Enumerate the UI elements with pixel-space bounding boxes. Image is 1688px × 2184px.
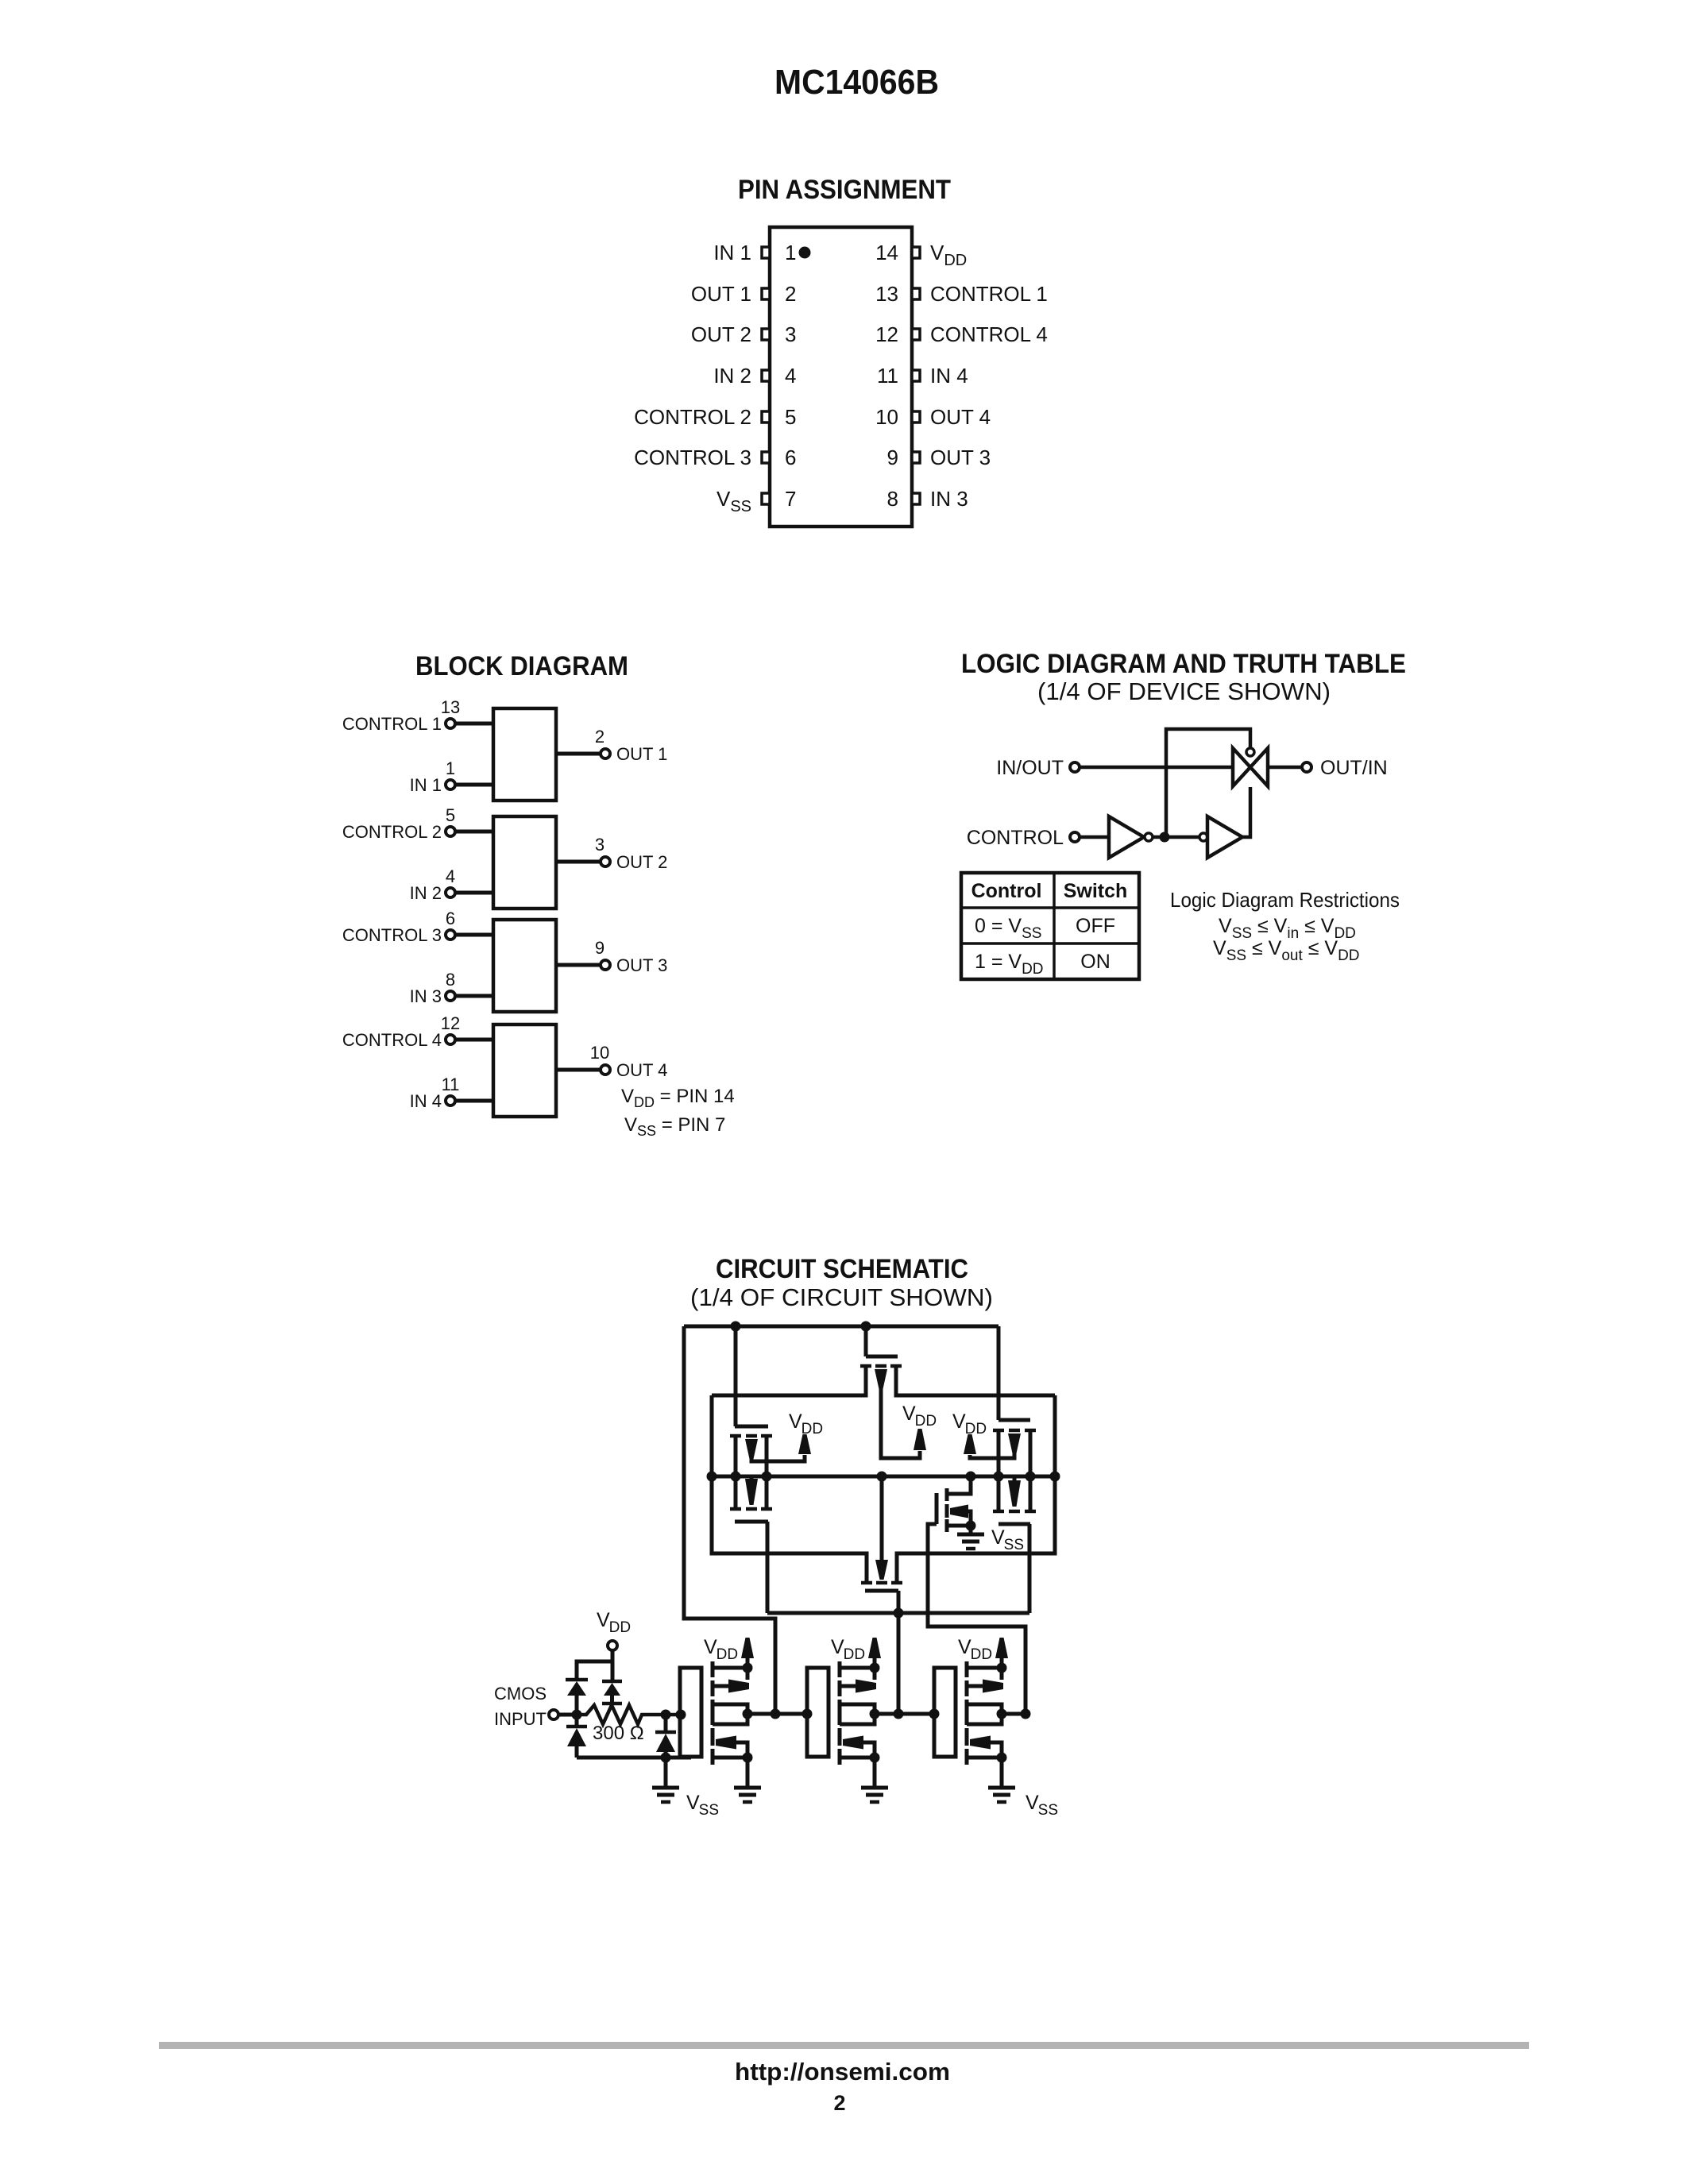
- svg-text:DD: DD: [965, 1421, 987, 1437]
- transistor Q5 source lead: [997, 1432, 1001, 1476]
- VDD arrow at inverter 3: [995, 1638, 1008, 1658]
- diode D2 anode bar at resistor tap: [602, 1702, 622, 1706]
- junction left rail at inverter1 output: [771, 1709, 781, 1719]
- svg-text:OUT 2: OUT 2: [691, 322, 751, 346]
- junction Q8 source / VDD: [743, 1663, 753, 1673]
- svg-text:6: 6: [785, 446, 796, 469]
- transistor Q4 gate plate: [865, 1589, 898, 1593]
- svg-text:ON: ON: [1080, 951, 1111, 973]
- svg-text:11: 11: [442, 1075, 460, 1094]
- transistor Q2 gate lead to gate bus: [766, 1522, 770, 1613]
- junction inverter 1 output: [743, 1709, 753, 1719]
- wire CONTROL 3 to SW3: [455, 933, 493, 937]
- transistor Q11 source lead: [840, 1756, 875, 1760]
- wire CONTROL 4 to SW4: [455, 1038, 493, 1042]
- svg-text:DD: DD: [717, 1646, 738, 1663]
- VDD arrow at Q3: [914, 1429, 926, 1450]
- OUT 1 terminal (pin 2): [601, 749, 610, 758]
- junction Q12 source / VDD: [997, 1663, 1007, 1673]
- wire SW4 to OUT 4: [556, 1068, 601, 1072]
- terminal IN/OUT: [1070, 762, 1080, 772]
- diode D2: [604, 1683, 620, 1696]
- transistor Q3 left lead to left frame: [712, 1368, 866, 1395]
- diode D1 cathode bar: [566, 1678, 588, 1682]
- transistor Q2 substrate arrow: [745, 1479, 758, 1505]
- transistor Q8 (PMOS inverter 1) source lead: [713, 1666, 747, 1670]
- transistor Q1 drain lead: [765, 1437, 769, 1476]
- truth table row divider: [961, 942, 1139, 945]
- svg-text:OUT 1: OUT 1: [616, 744, 667, 764]
- node control_bar junction: [1160, 832, 1170, 843]
- pin 4 tab: [762, 370, 770, 381]
- wire Q7 gate to inverter3 output: [928, 1524, 1026, 1714]
- IN 2 terminal (pin 4): [446, 888, 455, 897]
- svg-text:OUT 3: OUT 3: [616, 955, 667, 975]
- diode D1 anode lead: [575, 1696, 579, 1715]
- wire to VDD arrow inverter 2: [873, 1658, 877, 1668]
- transistor Q8 source-substrate tie: [746, 1668, 750, 1680]
- transistor Q2 substrate lead: [750, 1476, 754, 1479]
- wire VDD branch to D1: [577, 1661, 612, 1680]
- svg-text:http://onsemi.com: http://onsemi.com: [735, 2058, 950, 2086]
- svg-text:Switch: Switch: [1064, 880, 1128, 902]
- wire SW1 to OUT 1: [556, 752, 601, 756]
- transistor Q12 substrate arrow: [983, 1680, 1003, 1693]
- OUT 3 terminal (pin 9): [601, 960, 610, 970]
- svg-text:SS: SS: [1004, 1537, 1024, 1553]
- transistor Q1 source lead: [734, 1437, 738, 1476]
- pin 10 tab: [912, 411, 920, 423]
- transistor Q13 source lead: [967, 1756, 1002, 1760]
- svg-text:3: 3: [785, 322, 796, 346]
- wire switch n-gate bus: [767, 1611, 1029, 1615]
- diode D4 anode lead: [664, 1752, 668, 1758]
- transistor Q11 substrate lead: [863, 1742, 875, 1758]
- transistor Q1 substrate arrow: [745, 1439, 758, 1459]
- inverter 1 gate electrode: [680, 1668, 701, 1757]
- svg-text:SS: SS: [1038, 1802, 1058, 1819]
- wire IN/OUT to transmission gate: [1080, 766, 1233, 770]
- transistor Q1 channel caps: [730, 1434, 741, 1438]
- svg-text:5: 5: [446, 805, 455, 825]
- wire riser n-gate bus to inverter2 output: [897, 1613, 901, 1714]
- svg-text:CONTROL: CONTROL: [967, 827, 1064, 849]
- transistor Q11 (NMOS inverter 2) drain lead: [840, 1714, 875, 1724]
- wire clamp bottom rail: [577, 1756, 691, 1760]
- inverter 2 channel: [838, 1661, 842, 1677]
- svg-text:OUT 3: OUT 3: [930, 446, 991, 469]
- inversion bubble on TG1 p-gate: [1246, 748, 1254, 756]
- svg-text:1: 1: [446, 758, 455, 778]
- transistor Q10 source-substrate tie: [873, 1668, 877, 1680]
- transistor Q5 drain lead: [1029, 1432, 1033, 1476]
- inversion bubble U2b input: [1199, 833, 1207, 841]
- transistor Q4 substrate arrow: [875, 1560, 888, 1580]
- pin 9 tab: [912, 452, 920, 463]
- transistor Q7 substrate arrow: [950, 1505, 968, 1518]
- svg-text:CONTROL 3: CONTROL 3: [634, 446, 751, 469]
- wire control loop top: [1166, 729, 1250, 835]
- inverter 1 channel: [711, 1661, 715, 1677]
- CONTROL 2 terminal (pin 5): [446, 827, 455, 836]
- transistor Q4 channel caps: [861, 1581, 872, 1585]
- diode D3 lead from input node: [575, 1715, 579, 1727]
- transistor Q13 substrate arrow: [970, 1736, 991, 1750]
- wire inverter2 output to inverter3 input: [875, 1712, 934, 1716]
- svg-text:3: 3: [595, 835, 605, 855]
- transistor Q5 substrate arrow: [1008, 1433, 1021, 1453]
- wire to VDD arrow inverter 1: [746, 1658, 750, 1668]
- svg-text:2: 2: [785, 282, 796, 306]
- transistor Q10 substrate lead: [840, 1684, 856, 1688]
- svg-text:OUT/IN: OUT/IN: [1320, 757, 1388, 779]
- svg-text:CONTROL 4: CONTROL 4: [930, 322, 1048, 346]
- DIP-14 package body U1: [770, 227, 912, 527]
- inverter 3 gate electrode: [934, 1668, 956, 1757]
- OUT 2 terminal (pin 3): [601, 857, 610, 866]
- wire inverter3 output to Q7 gate riser: [1002, 1712, 1026, 1716]
- svg-text:V: V: [789, 1410, 802, 1433]
- buffer U2b: [1207, 816, 1242, 858]
- svg-text:(1/4 OF CIRCUIT SHOWN): (1/4 OF CIRCUIT SHOWN): [690, 1283, 993, 1311]
- OUT 4 terminal (pin 10): [601, 1065, 610, 1075]
- wire Q13 source to ground: [1000, 1758, 1004, 1788]
- terminal CONTROL: [1070, 832, 1080, 842]
- svg-text:CONTROL 2: CONTROL 2: [634, 405, 751, 429]
- svg-text:CONTROL 1: CONTROL 1: [930, 282, 1048, 306]
- wire Q7 source to ground: [969, 1526, 973, 1534]
- left frame wire (Q3 source to Q4 source): [712, 1395, 867, 1581]
- CONTROL 4 terminal (pin 12): [446, 1035, 455, 1044]
- transistor Q13 (NMOS inverter 3) drain lead: [967, 1714, 1002, 1724]
- transistor Q7 channel: [945, 1488, 949, 1501]
- diode D2 anode lead: [610, 1696, 614, 1702]
- wire CONTROL 2 to SW2: [455, 830, 493, 834]
- wire top rail (switch p-gate net): [684, 1325, 999, 1329]
- transistor Q7 drain lead to bus: [947, 1476, 971, 1494]
- transmission gate TG1: [1233, 748, 1268, 786]
- VDD arrow at inverter 1: [741, 1638, 754, 1658]
- svg-text:IN 2: IN 2: [713, 364, 751, 388]
- svg-text:4: 4: [446, 866, 455, 886]
- CONTROL 1 terminal (pin 13): [446, 719, 455, 728]
- IN 3 terminal (pin 8): [446, 991, 455, 1001]
- transistor Q12 source-substrate tie: [1000, 1668, 1004, 1680]
- junction Q11 source / ground: [870, 1753, 880, 1763]
- ground at inverter 2 (VSS): [861, 1786, 888, 1790]
- svg-text:IN 4: IN 4: [930, 364, 968, 388]
- junction n-gate bus / riser to inverter2 output: [894, 1608, 904, 1619]
- svg-text:Logic Diagram Restrictions: Logic Diagram Restrictions: [1170, 888, 1400, 912]
- junction bus / Q1 source Q2 source: [731, 1472, 741, 1482]
- transistor Q3 channel caps: [860, 1364, 871, 1368]
- wire VDD terminal down: [611, 1650, 615, 1680]
- wire U2a to node: [1153, 835, 1165, 839]
- transistor Q5 substrate lead to VDD: [970, 1453, 1014, 1458]
- transistor Q6 drain lead: [1029, 1476, 1033, 1510]
- analog switch block SW3: [493, 920, 556, 1012]
- transistor Q6 gate lead to gate bus: [1028, 1524, 1032, 1613]
- transistor Q4 (lower middle) substrate lead from bus: [880, 1476, 884, 1560]
- wire CONTROL 1 to SW1: [455, 722, 493, 726]
- truth table header divider: [961, 906, 1139, 909]
- resistor R1 300 ohm: [577, 1705, 680, 1724]
- svg-text:IN 3: IN 3: [930, 487, 968, 511]
- svg-text:V: V: [1026, 1792, 1039, 1814]
- transistor Q3 gate plate: [866, 1355, 898, 1359]
- wire CONTROL to inverter: [1080, 835, 1109, 839]
- svg-text:V: V: [991, 1526, 1005, 1549]
- svg-text:6: 6: [446, 909, 455, 928]
- wire Q9 source to ground: [746, 1758, 750, 1788]
- wire IN 1 to SW1: [455, 783, 493, 787]
- transistor Q13 substrate lead: [991, 1742, 1002, 1758]
- CONTROL 3 terminal (pin 6): [446, 930, 455, 940]
- transistor Q12 substrate lead: [967, 1684, 983, 1688]
- svg-text:2: 2: [595, 727, 605, 747]
- junction bus / Q5 source Q6 source: [994, 1472, 1004, 1482]
- transistor Q2 (lower left) source lead: [734, 1476, 738, 1507]
- transistor Q7 substrate tie: [968, 1511, 971, 1526]
- svg-text:LOGIC DIAGRAM AND TRUTH TABLE: LOGIC DIAGRAM AND TRUTH TABLE: [961, 649, 1406, 679]
- svg-text:8: 8: [887, 487, 898, 511]
- junction inverter2 input: [802, 1709, 813, 1719]
- transistor Q11 substrate arrow: [843, 1736, 863, 1750]
- svg-text:V: V: [958, 1636, 971, 1658]
- diode D3 cathode bar: [566, 1725, 587, 1729]
- svg-text:IN/OUT: IN/OUT: [996, 757, 1064, 779]
- junction top rail / Q1 gate: [731, 1322, 741, 1332]
- svg-text:OFF: OFF: [1076, 915, 1115, 937]
- junction Q9 source / ground: [743, 1753, 753, 1763]
- pin 7 tab: [762, 493, 770, 504]
- svg-text:CONTROL 1: CONTROL 1: [342, 714, 442, 734]
- transistor Q6 substrate lead: [1013, 1476, 1017, 1480]
- svg-text:PIN ASSIGNMENT: PIN ASSIGNMENT: [738, 175, 951, 205]
- transistor Q10 drain lead: [840, 1704, 875, 1714]
- transistor Q6 (lower right) source lead: [997, 1476, 1001, 1510]
- junction Q13 source / ground: [997, 1753, 1007, 1763]
- svg-text:IN 1: IN 1: [410, 775, 442, 795]
- svg-text:OUT 2: OUT 2: [616, 852, 667, 872]
- transistor Q5 gate plate: [999, 1418, 1030, 1422]
- svg-text:OUT 4: OUT 4: [930, 405, 991, 429]
- transistor Q2 drain lead: [765, 1476, 769, 1507]
- transistor Q10 (PMOS inverter 2) source lead: [840, 1666, 875, 1670]
- svg-text:SS: SS: [699, 1802, 719, 1819]
- svg-text:V: V: [686, 1792, 700, 1814]
- svg-text:V: V: [704, 1636, 717, 1658]
- diode D4: [656, 1734, 675, 1752]
- svg-text:CIRCUIT SCHEMATIC: CIRCUIT SCHEMATIC: [716, 1254, 968, 1284]
- junction top rail / Q3 gate: [861, 1322, 871, 1332]
- svg-text:V: V: [597, 1609, 610, 1631]
- svg-text:13: 13: [875, 282, 898, 306]
- svg-text:DD: DD: [844, 1646, 865, 1663]
- IN 1 terminal (pin 1): [446, 780, 455, 789]
- svg-text:11: 11: [877, 364, 898, 388]
- junction Q7 gate net at inverter3 output: [1021, 1709, 1031, 1719]
- transistor Q2 channel caps: [730, 1507, 741, 1511]
- VDD arrow at inverter 2: [868, 1638, 881, 1658]
- junction bus / Q5 drain Q6 drain: [1026, 1472, 1036, 1482]
- transistor Q6 gate plate: [999, 1522, 1030, 1526]
- svg-text:INPUT: INPUT: [494, 1709, 547, 1729]
- svg-text:CONTROL 3: CONTROL 3: [342, 925, 442, 945]
- junction Q7 source / substrate / ground: [966, 1521, 976, 1531]
- wire analog bus (switch channel net): [712, 1475, 1055, 1479]
- junction bottom rail / D4 anode: [661, 1753, 671, 1763]
- svg-text:CMOS: CMOS: [494, 1684, 547, 1704]
- transistor Q7 (substrate switch) gate bar: [935, 1493, 939, 1524]
- junction inverter3 input: [929, 1709, 940, 1719]
- inverter 2 gate electrode: [807, 1668, 829, 1757]
- junction Q10 source / VDD: [870, 1663, 880, 1673]
- junction riser at inverter2 output: [894, 1709, 904, 1719]
- transistor Q4 gate lead to gate bus: [897, 1591, 901, 1613]
- svg-text:1: 1: [785, 241, 796, 264]
- svg-text:MC14066B: MC14066B: [774, 63, 939, 102]
- transistor Q6 channel caps: [993, 1510, 1004, 1514]
- wire input terminal to node: [558, 1713, 577, 1717]
- analog switch block SW4: [493, 1024, 556, 1117]
- inverter 3 channel: [965, 1661, 969, 1677]
- pin 2 tab: [762, 288, 770, 299]
- diode D2 cathode bar: [602, 1680, 622, 1684]
- junction inverter 2 output: [870, 1709, 880, 1719]
- pin 13 tab: [912, 288, 920, 299]
- pin 6 tab: [762, 452, 770, 463]
- svg-text:CONTROL 4: CONTROL 4: [342, 1030, 442, 1050]
- transistor Q1 (upper left) gate lead: [734, 1326, 738, 1426]
- transistor Q9 substrate arrow: [716, 1736, 736, 1750]
- svg-text:4: 4: [785, 364, 796, 388]
- right frame wire (Q3 drain to Q4 drain): [897, 1395, 1055, 1581]
- svg-text:10: 10: [875, 405, 898, 429]
- diode D3 anode lead: [575, 1746, 579, 1758]
- wire node to buffer: [1165, 835, 1199, 839]
- analog switch block SW1: [493, 708, 556, 801]
- ground at input clamp (VSS): [652, 1786, 679, 1790]
- svg-text:13: 13: [441, 697, 460, 717]
- svg-text:Control: Control: [971, 880, 1042, 902]
- analog switch block SW2: [493, 816, 556, 909]
- VDD arrow at Q1: [798, 1434, 811, 1454]
- diode D4 cathode bar: [655, 1731, 676, 1734]
- ground at Q7 (VSS): [957, 1533, 984, 1537]
- inverter U2a: [1109, 816, 1144, 858]
- svg-text:300 Ω: 300 Ω: [593, 1723, 644, 1744]
- pin 8 tab: [912, 493, 920, 504]
- pin 5 tab: [762, 411, 770, 423]
- transistor Q8 substrate lead: [713, 1684, 729, 1688]
- transistor Q9 source lead: [713, 1756, 747, 1760]
- transistor Q8 substrate arrow: [728, 1680, 749, 1693]
- svg-text:IN 3: IN 3: [410, 986, 442, 1006]
- transistor Q12 (PMOS inverter 3) source lead: [967, 1666, 1002, 1670]
- transistor Q9 substrate lead: [736, 1742, 747, 1758]
- pin 12 tab: [912, 329, 920, 340]
- svg-text:12: 12: [875, 322, 898, 346]
- transistor Q3 right lead to right frame: [896, 1368, 1055, 1395]
- transistor Q6 substrate arrow: [1008, 1480, 1021, 1507]
- transistor Q7 source lead: [947, 1524, 971, 1528]
- transistor Q3 (top middle) gate lead: [864, 1326, 868, 1356]
- diode D3: [567, 1728, 586, 1746]
- svg-text:9: 9: [595, 938, 605, 958]
- wire IN 4 to SW4: [455, 1099, 493, 1103]
- junction input node / D1 D3: [572, 1710, 582, 1720]
- transistor Q10 substrate arrow: [856, 1680, 876, 1693]
- svg-text:5: 5: [785, 405, 796, 429]
- transistor Q1 substrate lead to VDD: [751, 1455, 805, 1461]
- svg-text:V: V: [902, 1403, 916, 1425]
- svg-text:CONTROL 2: CONTROL 2: [342, 822, 442, 842]
- ground at inverter 1 (VSS): [734, 1786, 761, 1790]
- terminal OUT/IN: [1302, 762, 1311, 772]
- pin 3 tab: [762, 329, 770, 340]
- transistor Q2 gate plate: [735, 1520, 768, 1524]
- svg-text:DD: DD: [802, 1421, 823, 1437]
- junction inverter1 input: [676, 1710, 686, 1720]
- footer rule: [159, 2042, 1529, 2049]
- junction bus / Q7 drain: [966, 1472, 976, 1482]
- terminal CMOS INPUT: [549, 1710, 558, 1719]
- wire left outer rail down to inverter1 output: [684, 1326, 775, 1714]
- junction bus / right frame: [1050, 1472, 1060, 1482]
- wire SW2 to OUT 2: [556, 860, 601, 864]
- svg-text:DD: DD: [971, 1646, 992, 1663]
- svg-text:V: V: [831, 1636, 844, 1658]
- wire TG1 to OUT/IN: [1268, 766, 1302, 770]
- wire SW3 to OUT 3: [556, 963, 601, 967]
- svg-text:2: 2: [833, 2091, 845, 2115]
- ground at inverter 3 (VSS): [988, 1786, 1015, 1790]
- svg-text:OUT 4: OUT 4: [616, 1060, 667, 1080]
- transistor Q3 substrate arrow: [875, 1369, 887, 1389]
- wire Q11 source to ground: [873, 1758, 877, 1788]
- transistor Q3 substrate lead to VDD: [881, 1389, 920, 1458]
- svg-text:IN 4: IN 4: [410, 1091, 442, 1111]
- inversion bubble U2a output: [1145, 833, 1153, 841]
- wire D4 to ground: [664, 1758, 668, 1788]
- transistor Q8 drain lead: [713, 1704, 747, 1714]
- svg-text:10: 10: [590, 1043, 609, 1063]
- transistor Q5 channel caps: [993, 1429, 1004, 1433]
- junction bus / Q1 drain Q2 drain: [762, 1472, 772, 1482]
- wire inverter1 output to inverter2 input: [747, 1712, 807, 1716]
- pin 1 index dot: [799, 247, 811, 259]
- svg-text:OUT 1: OUT 1: [691, 282, 751, 306]
- junction R1 right / D4: [661, 1710, 671, 1720]
- svg-text:DD: DD: [609, 1619, 631, 1636]
- diode D4 lead from R1: [664, 1715, 668, 1732]
- terminal VDD: [608, 1641, 617, 1650]
- wire IN 2 to SW2: [455, 891, 493, 895]
- wire U2b to TG1 n-gate: [1242, 787, 1250, 837]
- junction bus / left frame: [707, 1472, 717, 1482]
- svg-text:8: 8: [446, 970, 455, 990]
- pin 1 tab: [762, 247, 770, 258]
- junction bus / Q4 substrate: [877, 1472, 887, 1482]
- transistor Q1 gate plate: [735, 1425, 768, 1429]
- transistor Q5 (upper right) gate lead: [997, 1326, 1001, 1420]
- svg-text:7: 7: [785, 487, 796, 511]
- svg-text:9: 9: [887, 446, 898, 469]
- wire to VDD arrow inverter 3: [1000, 1658, 1004, 1668]
- IN 4 terminal (pin 11): [446, 1096, 455, 1106]
- svg-text:V: V: [952, 1410, 966, 1433]
